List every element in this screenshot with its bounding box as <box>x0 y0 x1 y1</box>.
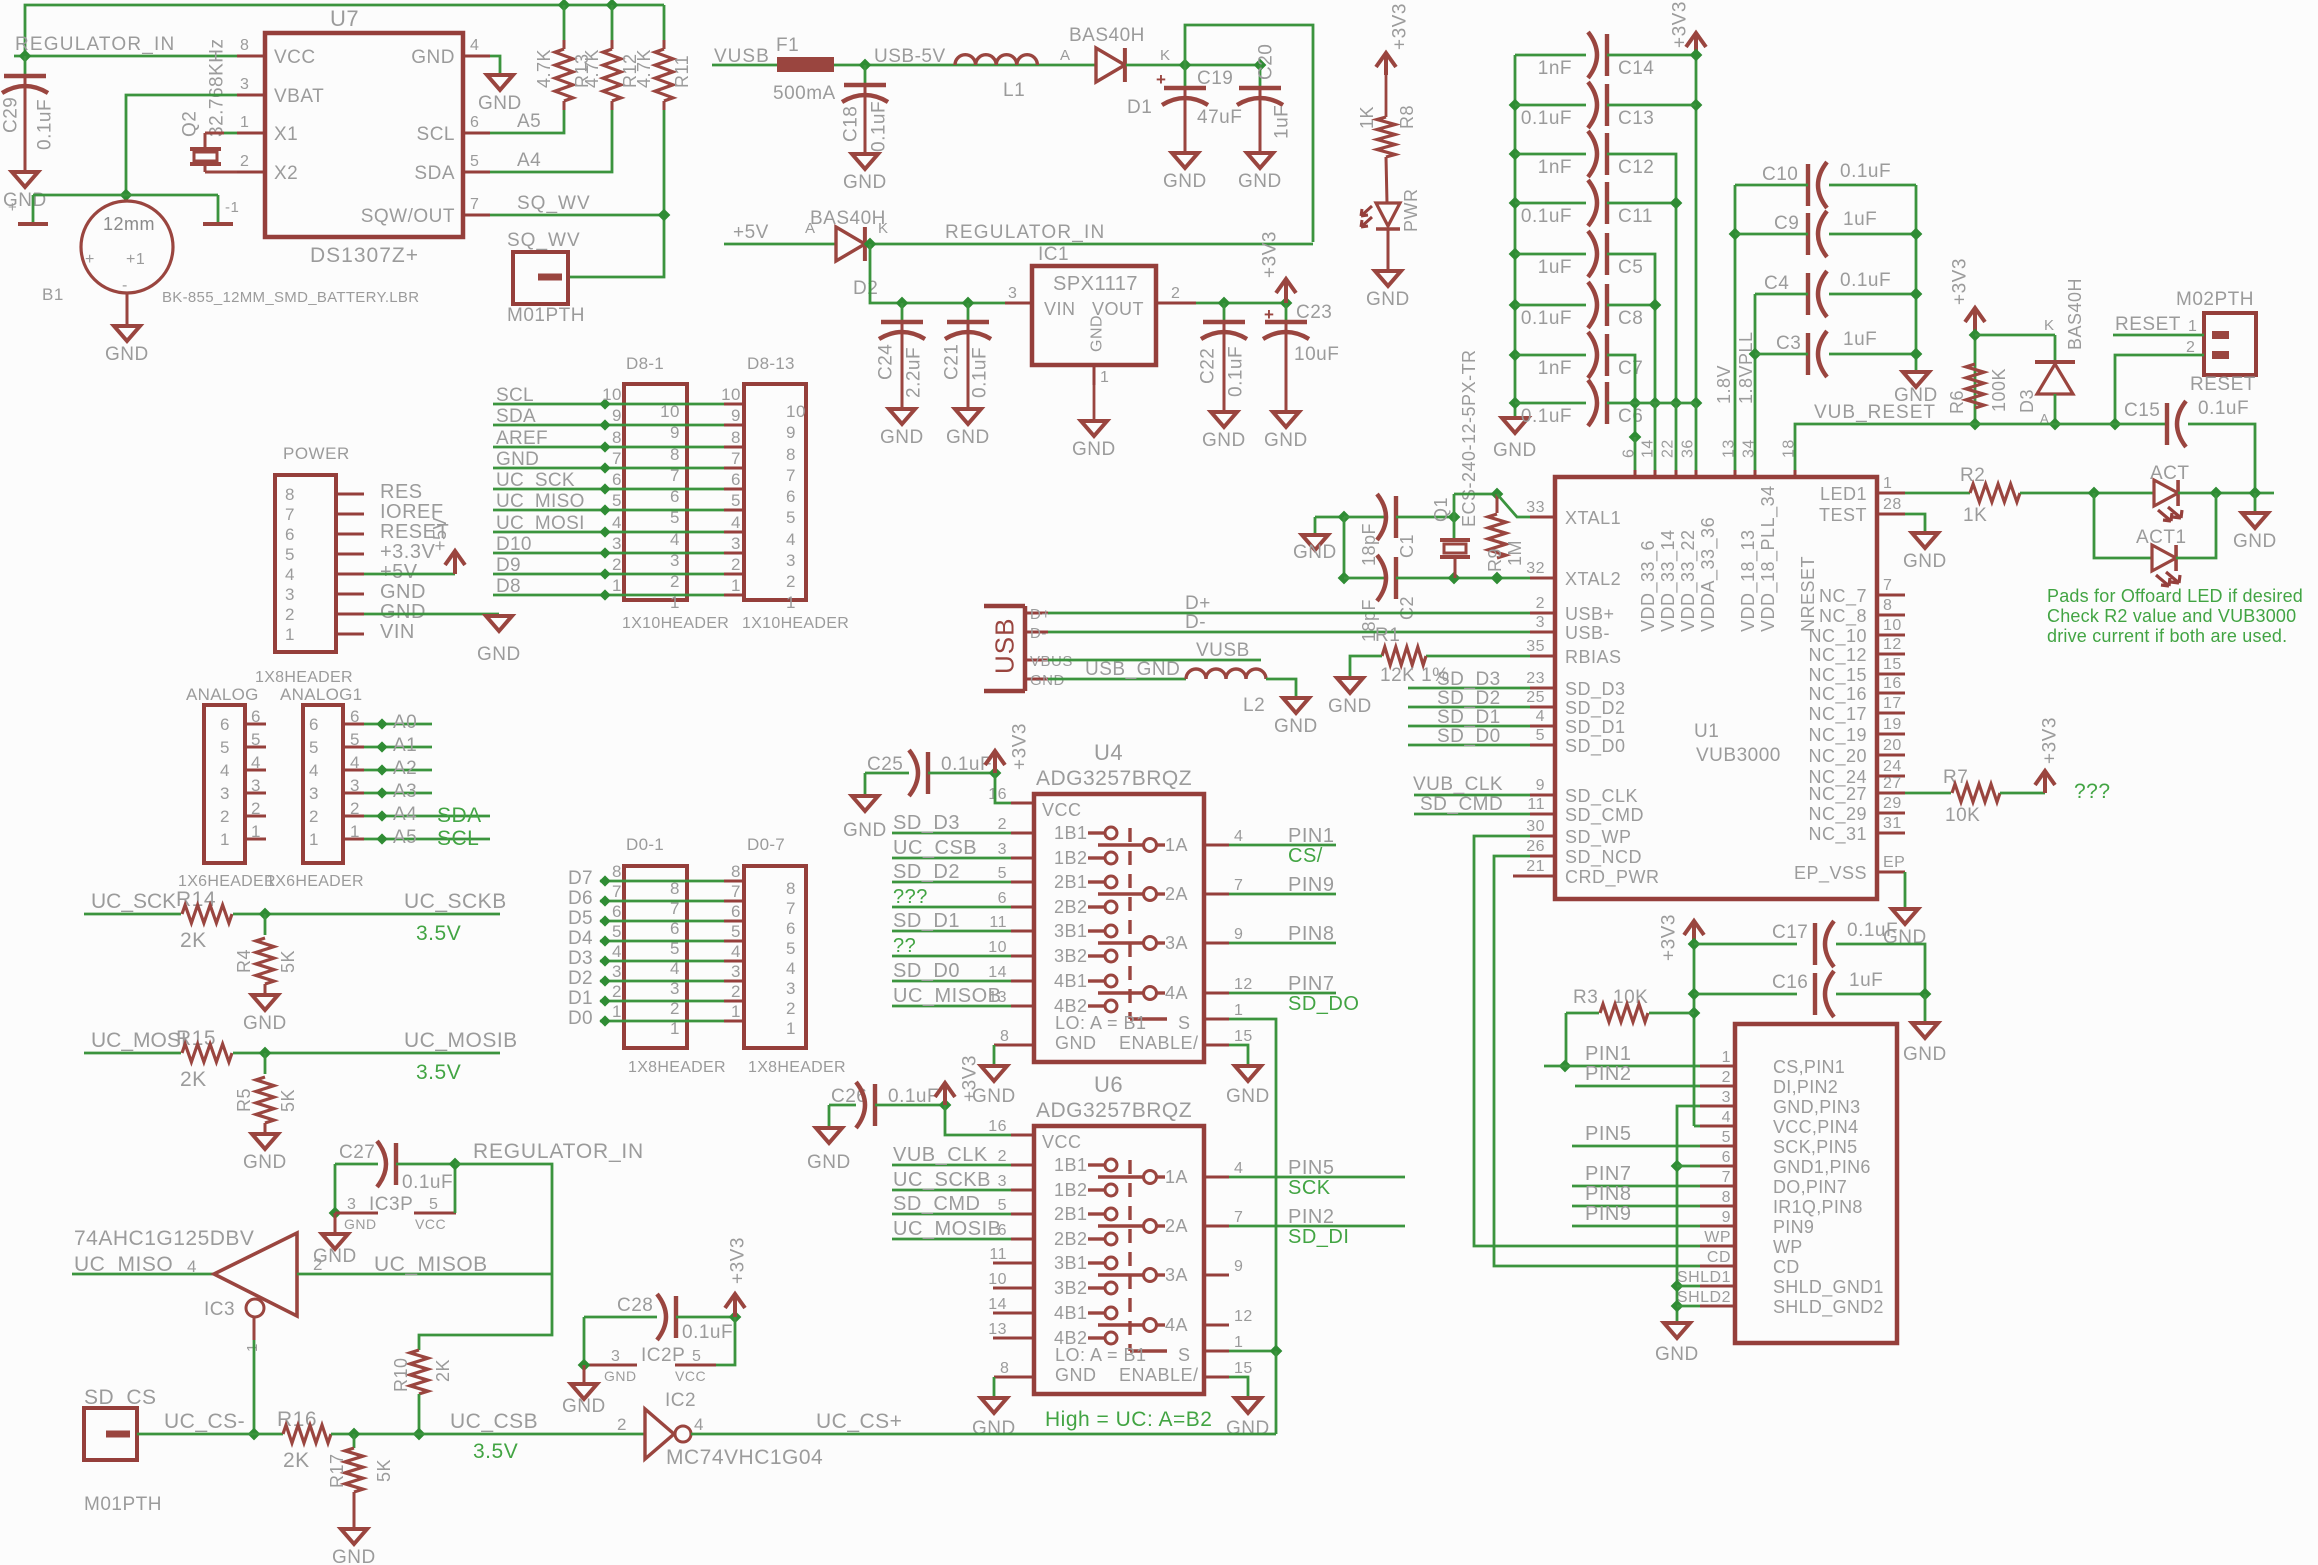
svg-text:3.5V: 3.5V <box>416 922 461 945</box>
svg-text:GND: GND <box>843 820 887 841</box>
svg-text:Q2: Q2 <box>180 111 201 137</box>
svg-text:GND: GND <box>1264 430 1308 451</box>
svg-text:UC_CSB: UC_CSB <box>450 1410 538 1433</box>
svg-text:32.768KHz: 32.768KHz <box>207 38 228 137</box>
svg-text:16: 16 <box>988 786 1007 803</box>
ground <box>364 613 499 616</box>
svg-text:GND: GND <box>1226 1086 1270 1107</box>
svg-text:16: 16 <box>988 1118 1007 1135</box>
svg-text:2: 2 <box>617 1415 627 1434</box>
svg-text:VDDA_33_36: VDDA_33_36 <box>1698 517 1719 632</box>
svg-text:R5: R5 <box>234 1088 254 1112</box>
svg-text:A4: A4 <box>517 150 541 171</box>
connector SD card socket <box>1735 1024 1897 1343</box>
svg-text:25: 25 <box>1526 689 1545 706</box>
svg-text:C23: C23 <box>1296 302 1332 323</box>
svg-text:SD_D3: SD_D3 <box>1565 679 1626 700</box>
svg-text:M02PTH: M02PTH <box>2176 289 2254 310</box>
svg-text:CD: CD <box>1707 1249 1731 1266</box>
svg-text:7: 7 <box>786 466 796 485</box>
svg-text:VCC: VCC <box>415 1216 446 1232</box>
svg-text:NC_12: NC_12 <box>1808 645 1867 666</box>
svg-text:0.1uF: 0.1uF <box>682 1322 733 1343</box>
svg-text:LO: A = B1: LO: A = B1 <box>1055 1013 1147 1033</box>
wire LED1 <box>1905 492 1970 495</box>
svg-text:1X8HEADER: 1X8HEADER <box>628 1059 726 1076</box>
svg-text:1: 1 <box>1234 1334 1243 1351</box>
svg-text:GND1,PIN6: GND1,PIN6 <box>1773 1157 1871 1177</box>
ground <box>252 995 278 1010</box>
svg-text:LO: A = B1: LO: A = B1 <box>1055 1345 1147 1365</box>
svg-text:C4: C4 <box>1764 273 1789 294</box>
svg-text:C22: C22 <box>1198 348 1219 384</box>
svg-text:3: 3 <box>1536 614 1545 631</box>
svg-text:34: 34 <box>1741 439 1758 458</box>
svg-text:PIN9: PIN9 <box>1773 1217 1814 1237</box>
svg-text:+5V: +5V <box>380 561 418 583</box>
svg-text:9: 9 <box>670 423 680 442</box>
svg-text:C13: C13 <box>1618 108 1654 129</box>
svg-text:6: 6 <box>1722 1149 1731 1166</box>
svg-text:GND: GND <box>562 1396 606 1417</box>
svg-text:UC_MISOB: UC_MISOB <box>374 1253 488 1276</box>
svg-text:7: 7 <box>612 449 622 468</box>
svg-text:A: A <box>805 220 816 237</box>
svg-text:2: 2 <box>612 982 622 1001</box>
svg-text:3B1: 3B1 <box>1054 1253 1088 1273</box>
resistor R5 5K <box>256 1077 274 1123</box>
svg-text:1A: 1A <box>1165 835 1188 855</box>
ground <box>2254 493 2257 512</box>
svg-text:D0-7: D0-7 <box>747 835 785 854</box>
svg-text:1uF: 1uF <box>1843 209 1877 230</box>
capacitor C18 0.1uF <box>864 65 867 85</box>
svg-text:4A: 4A <box>1165 1315 1188 1335</box>
svg-text:1: 1 <box>244 1343 261 1352</box>
svg-text:UC_CS-: UC_CS- <box>164 1410 245 1433</box>
svg-text:2: 2 <box>1536 595 1545 612</box>
svg-text:6: 6 <box>1621 449 1638 458</box>
svg-text:VDD_18_PLL_34: VDD_18_PLL_34 <box>1758 485 1779 632</box>
svg-text:0.1uF: 0.1uF <box>1521 308 1572 329</box>
svg-text:POWER: POWER <box>283 444 350 463</box>
svg-text:UC_CSB: UC_CSB <box>893 837 977 859</box>
svg-text:VUB_RESET: VUB_RESET <box>1814 402 1936 423</box>
svg-text:SD_D2: SD_D2 <box>893 861 960 883</box>
svg-text:S: S <box>1178 1013 1191 1033</box>
svg-text:C28: C28 <box>617 1295 653 1316</box>
svg-text:USB: USB <box>990 618 1020 674</box>
svg-text:6: 6 <box>731 902 741 921</box>
ground <box>955 409 981 424</box>
svg-text:2: 2 <box>220 807 230 826</box>
svg-text:5: 5 <box>670 508 680 527</box>
svg-text:1: 1 <box>220 830 230 849</box>
wire PIN2 <box>1575 1085 1700 1088</box>
wire UC_CS+ <box>691 1433 1276 1436</box>
svg-text:5: 5 <box>786 939 796 958</box>
svg-text:2: 2 <box>731 555 741 574</box>
svg-text:GND: GND <box>1226 1418 1270 1439</box>
svg-text:NC_31: NC_31 <box>1808 824 1867 845</box>
svg-text:3: 3 <box>1722 1089 1731 1106</box>
svg-text:SQ_WV: SQ_WV <box>507 230 581 251</box>
svg-text:3.5V: 3.5V <box>416 1061 461 1084</box>
svg-text:GND: GND <box>604 1368 637 1384</box>
svg-text:C20: C20 <box>1256 44 1277 80</box>
svg-text:1: 1 <box>2188 318 2197 335</box>
svg-text:14: 14 <box>988 1296 1007 1313</box>
svg-text:9: 9 <box>1234 926 1243 943</box>
svg-text:U6: U6 <box>1094 1072 1123 1097</box>
svg-text:B1: B1 <box>42 285 64 304</box>
svg-text:4A: 4A <box>1165 983 1188 1003</box>
ground <box>1172 153 1198 168</box>
svg-text:4: 4 <box>786 959 796 978</box>
svg-text:47uF: 47uF <box>1197 107 1242 128</box>
svg-text:D-: D- <box>1185 612 1206 633</box>
svg-text:3: 3 <box>612 534 622 553</box>
svg-text:3B2: 3B2 <box>1054 946 1088 966</box>
svg-text:IR1Q,PIN8: IR1Q,PIN8 <box>1773 1197 1863 1217</box>
wire VCC PIN4 <box>1694 1125 1700 1128</box>
svg-text:3: 3 <box>731 962 741 981</box>
svg-text:18pF: 18pF <box>1359 523 1379 566</box>
resistor R17 5K <box>353 1434 356 1448</box>
svg-text:SD_CMD: SD_CMD <box>1420 794 1503 815</box>
svg-text:R3: R3 <box>1573 987 1598 1008</box>
svg-text:D+: D+ <box>1030 606 1051 623</box>
svg-text:C17: C17 <box>1772 922 1808 943</box>
svg-text:VBUS: VBUS <box>1030 653 1073 670</box>
svg-text:RESET: RESET <box>2115 314 2181 335</box>
svg-text:+3V3: +3V3 <box>1260 231 1281 278</box>
svg-text:6: 6 <box>612 470 622 489</box>
ground <box>1247 153 1273 168</box>
svg-text:SD_CLK: SD_CLK <box>1565 786 1638 807</box>
wire XTAL1 <box>1315 516 1344 519</box>
svg-text:+3V3: +3V3 <box>728 1237 749 1284</box>
svg-text:1uF: 1uF <box>1538 257 1572 278</box>
ground <box>1211 412 1237 427</box>
svg-text:5K: 5K <box>278 1089 298 1112</box>
svg-text:VIN: VIN <box>1044 299 1076 319</box>
wire to REGULATOR_IN <box>1185 25 1313 242</box>
svg-text:D6: D6 <box>568 888 593 909</box>
svg-text:10: 10 <box>602 385 622 404</box>
svg-text:PIN2: PIN2 <box>1288 1206 1334 1228</box>
inductor L2 <box>1186 669 1266 679</box>
svg-text:SD_D3: SD_D3 <box>1437 669 1501 690</box>
power +3V3 <box>1276 279 1296 303</box>
svg-text:5: 5 <box>731 491 741 510</box>
svg-text:7: 7 <box>1722 1169 1731 1186</box>
svg-text:3: 3 <box>998 1173 1007 1190</box>
wire GND bus <box>1677 1106 1700 1322</box>
wires PIN7 PIN8 PIN9 <box>1572 1185 1700 1188</box>
wire cap gnd bus <box>1915 185 1918 372</box>
svg-text:1: 1 <box>285 625 295 644</box>
svg-text:PWR: PWR <box>1401 189 1421 233</box>
svg-text:5: 5 <box>429 1196 438 1213</box>
svg-text:1: 1 <box>309 830 319 849</box>
svg-text:7: 7 <box>731 449 741 468</box>
svg-text:ADG3257BRQZ: ADG3257BRQZ <box>1036 1099 1192 1122</box>
svg-text:SCK: SCK <box>1288 1177 1331 1199</box>
svg-text:33: 33 <box>1526 499 1545 516</box>
svg-text:SD_D0: SD_D0 <box>893 960 960 982</box>
svg-text:8: 8 <box>612 862 622 881</box>
svg-text:BK-855_12MM_SMD_BATTERY.LBR: BK-855_12MM_SMD_BATTERY.LBR <box>162 289 419 306</box>
svg-text:PIN8: PIN8 <box>1288 923 1334 945</box>
svg-text:3B2: 3B2 <box>1054 1278 1088 1298</box>
wire UC_CS+ riser <box>1275 1351 1278 1434</box>
svg-text:15: 15 <box>1883 656 1902 673</box>
svg-text:PIN7: PIN7 <box>1288 973 1334 995</box>
svg-text:1.8VPLL: 1.8VPLL <box>1736 331 1756 404</box>
wire A5 <box>490 110 564 133</box>
svg-text:+3V3: +3V3 <box>2040 717 2061 764</box>
svg-text:2K: 2K <box>180 929 207 952</box>
svg-text:BAS40H: BAS40H <box>810 208 886 229</box>
svg-text:VCC: VCC <box>1042 800 1082 820</box>
svg-text:GND: GND <box>1903 1044 1947 1065</box>
svg-text:C3: C3 <box>1776 333 1801 354</box>
svg-text:VDD_33_14: VDD_33_14 <box>1658 529 1679 632</box>
svg-text:29: 29 <box>1883 795 1902 812</box>
svg-text:4: 4 <box>786 530 796 549</box>
svg-text:0.1uF: 0.1uF <box>35 99 56 150</box>
svg-text:K: K <box>878 220 889 237</box>
svg-text:1B2: 1B2 <box>1054 1180 1088 1200</box>
svg-text:3: 3 <box>309 784 319 803</box>
wire VIN rail <box>870 244 1005 303</box>
ground <box>12 172 38 187</box>
svg-text:2: 2 <box>285 605 295 624</box>
resistor R7 10K <box>1905 792 1951 795</box>
svg-text:36: 36 <box>1680 439 1697 458</box>
svg-text:RES: RES <box>380 481 423 503</box>
svg-text:1: 1 <box>1100 369 1109 386</box>
svg-text:6: 6 <box>786 487 796 506</box>
svg-text:5: 5 <box>309 738 319 757</box>
svg-text:C7: C7 <box>1618 358 1643 379</box>
wire SD_NCD <box>1494 856 1530 1263</box>
svg-text:X1: X1 <box>274 124 298 145</box>
ground <box>1903 372 1929 387</box>
svg-text:D4: D4 <box>568 928 593 949</box>
svg-text:A: A <box>1060 47 1071 64</box>
svg-text:C14: C14 <box>1618 58 1654 79</box>
svg-text:0.1uF: 0.1uF <box>1521 206 1572 227</box>
svg-text:9: 9 <box>731 406 741 425</box>
wire PIN1 <box>1544 1065 1700 1068</box>
svg-text:1B1: 1B1 <box>1054 823 1088 843</box>
svg-text:21: 21 <box>1526 858 1545 875</box>
svg-text:UC_SCK: UC_SCK <box>91 890 176 913</box>
svg-text:100K: 100K <box>1989 368 2009 412</box>
svg-text:VUB_CLK: VUB_CLK <box>893 1144 988 1166</box>
svg-text:USB_GND: USB_GND <box>1085 659 1180 680</box>
capacitor C24 2.2uF <box>901 303 904 322</box>
svg-text:C27: C27 <box>339 1142 375 1163</box>
svg-text:SD_NCD: SD_NCD <box>1565 847 1642 868</box>
svg-text:8: 8 <box>670 879 680 898</box>
svg-text:5: 5 <box>670 939 680 958</box>
IC U1 VUB3000 <box>1555 477 1877 899</box>
svg-text:1: 1 <box>240 114 249 131</box>
svg-text:PIN2: PIN2 <box>1585 1063 1631 1085</box>
svg-text:NC_20: NC_20 <box>1808 746 1867 767</box>
svg-text:1nF: 1nF <box>1538 58 1572 79</box>
svg-text:2: 2 <box>350 799 360 818</box>
ground <box>1273 412 1299 427</box>
ground <box>252 1134 278 1149</box>
svg-text:+1: +1 <box>126 251 145 268</box>
svg-text:Check R2 value and VUB3000: Check R2 value and VUB3000 <box>2047 606 2296 626</box>
svg-text:U7: U7 <box>330 6 359 31</box>
svg-text:GND: GND <box>1055 1033 1097 1053</box>
wire A4 <box>490 110 612 172</box>
svg-text:0.1uF: 0.1uF <box>1847 920 1898 941</box>
svg-text:EP: EP <box>1883 854 1905 871</box>
capacitor bank C14 C13 C12 C11 C5 C8 C7 C6 <box>1514 55 1517 418</box>
svg-text:C12: C12 <box>1618 157 1654 178</box>
svg-text:IC3: IC3 <box>204 1299 235 1320</box>
svg-text:10uF: 10uF <box>1294 344 1339 365</box>
svg-text:2: 2 <box>670 572 680 591</box>
svg-text:1: 1 <box>786 1019 796 1038</box>
svg-text:???: ??? <box>893 886 928 908</box>
svg-text:5: 5 <box>220 738 230 757</box>
svg-text:C11: C11 <box>1618 206 1653 227</box>
svg-text:ENABLE/: ENABLE/ <box>1119 1033 1199 1053</box>
svg-text:8: 8 <box>1883 597 1892 614</box>
wire D+ <box>1048 612 1530 615</box>
svg-text:SD_CS: SD_CS <box>84 1386 157 1409</box>
capacitor C2 18pF <box>1377 555 1386 601</box>
ground <box>1235 1398 1261 1413</box>
svg-text:A0: A0 <box>393 712 417 733</box>
svg-text:RESET: RESET <box>2190 374 2256 395</box>
svg-text:3: 3 <box>1008 285 1017 302</box>
svg-text:D+: D+ <box>1185 593 1211 614</box>
svg-text:5: 5 <box>692 1348 701 1365</box>
svg-text:VDD_18_13: VDD_18_13 <box>1738 529 1759 632</box>
svg-text:5: 5 <box>731 922 741 941</box>
svg-text:GND: GND <box>411 47 455 68</box>
svg-text:28: 28 <box>1883 496 1902 513</box>
svg-text:5: 5 <box>1536 727 1545 744</box>
svg-text:NC_8: NC_8 <box>1819 606 1867 627</box>
svg-text:1: 1 <box>786 593 796 612</box>
svg-text:12: 12 <box>1883 636 1902 653</box>
svg-text:SPX1117: SPX1117 <box>1053 273 1138 295</box>
svg-text:5: 5 <box>786 508 796 527</box>
svg-text:1: 1 <box>612 576 622 595</box>
svg-text:2K: 2K <box>180 1068 207 1091</box>
svg-text:+3V3: +3V3 <box>1659 914 1680 961</box>
svg-text:SHLD_GND2: SHLD_GND2 <box>1773 1297 1884 1318</box>
wire VUSB <box>1048 659 1261 662</box>
svg-text:4.7K: 4.7K <box>534 49 554 88</box>
svg-text:D8-1: D8-1 <box>626 354 664 373</box>
ground <box>322 1234 348 1249</box>
svg-text:EP_VSS: EP_VSS <box>1794 863 1867 884</box>
svg-text:7: 7 <box>1234 1209 1243 1226</box>
svg-text:NC_16: NC_16 <box>1808 684 1867 705</box>
svg-text:8: 8 <box>731 428 741 447</box>
inductor L1 <box>955 55 1037 65</box>
svg-text:XTAL1: XTAL1 <box>1565 508 1621 528</box>
svg-text:3: 3 <box>998 841 1007 858</box>
svg-text:10K: 10K <box>1945 805 1980 826</box>
svg-text:VBAT: VBAT <box>274 86 324 107</box>
svg-text:1: 1 <box>350 822 360 841</box>
fuse F1 500mA <box>777 57 834 72</box>
svg-text:2: 2 <box>2186 339 2195 356</box>
svg-text:ANALOG1: ANALOG1 <box>280 685 362 704</box>
svg-text:3.5V: 3.5V <box>473 1440 518 1463</box>
svg-text:D0-1: D0-1 <box>626 835 664 854</box>
resistor R10 2K <box>410 1350 428 1394</box>
wire VUB_CLK <box>1414 794 1530 797</box>
svg-text:4.7K: 4.7K <box>634 49 654 88</box>
svg-text:PIN5: PIN5 <box>1585 1123 1631 1145</box>
svg-text:D-: D- <box>1030 625 1047 642</box>
svg-text:1K: 1K <box>1963 505 1987 526</box>
svg-text:GND: GND <box>344 1216 377 1232</box>
svg-text:0.1uF: 0.1uF <box>1521 108 1572 129</box>
ground <box>1502 418 1528 433</box>
svg-text:1: 1 <box>1722 1049 1731 1066</box>
svg-text:9: 9 <box>1536 777 1545 794</box>
svg-text:6: 6 <box>251 707 261 726</box>
svg-text:WP: WP <box>1773 1237 1803 1257</box>
svg-text:CRD_PWR: CRD_PWR <box>1565 867 1660 888</box>
svg-text:GND: GND <box>1030 672 1065 689</box>
svg-text:UC_MOSIB: UC_MOSIB <box>893 1218 1001 1240</box>
svg-text:ECS-240-12-5PX-TR: ECS-240-12-5PX-TR <box>1459 349 1479 527</box>
svg-text:K: K <box>2044 317 2055 334</box>
wire CD <box>1494 1263 1700 1266</box>
ground <box>114 326 140 341</box>
ground <box>1912 1023 1938 1038</box>
svg-text:L1: L1 <box>1003 80 1025 101</box>
svg-text:7: 7 <box>1234 877 1243 894</box>
svg-text:10: 10 <box>660 402 680 421</box>
svg-text:C6: C6 <box>1618 406 1643 427</box>
svg-text:DI,PIN2: DI,PIN2 <box>1773 1077 1838 1097</box>
svg-text:DO,PIN7: DO,PIN7 <box>1773 1177 1847 1197</box>
svg-text:GND: GND <box>1655 1344 1699 1365</box>
svg-text:3: 3 <box>251 776 261 795</box>
svg-text:UC_MISO: UC_MISO <box>74 1253 173 1276</box>
svg-text:+3V3: +3V3 <box>1950 258 1971 305</box>
svg-text:31: 31 <box>1883 815 1902 832</box>
svg-text:PIN9: PIN9 <box>1585 1203 1631 1225</box>
svg-text:11: 11 <box>989 1246 1007 1263</box>
wire S select <box>1229 1019 1276 1351</box>
ground <box>1664 1323 1690 1338</box>
svg-text:SD_D2: SD_D2 <box>1437 688 1501 709</box>
svg-text:SCL: SCL <box>417 124 455 145</box>
svg-text:+5V: +5V <box>733 222 769 243</box>
svg-text:23: 23 <box>1526 670 1545 687</box>
capacitor C20 1uF <box>1259 65 1262 88</box>
svg-text:26: 26 <box>1526 838 1545 855</box>
svg-text:3: 3 <box>347 1196 356 1213</box>
